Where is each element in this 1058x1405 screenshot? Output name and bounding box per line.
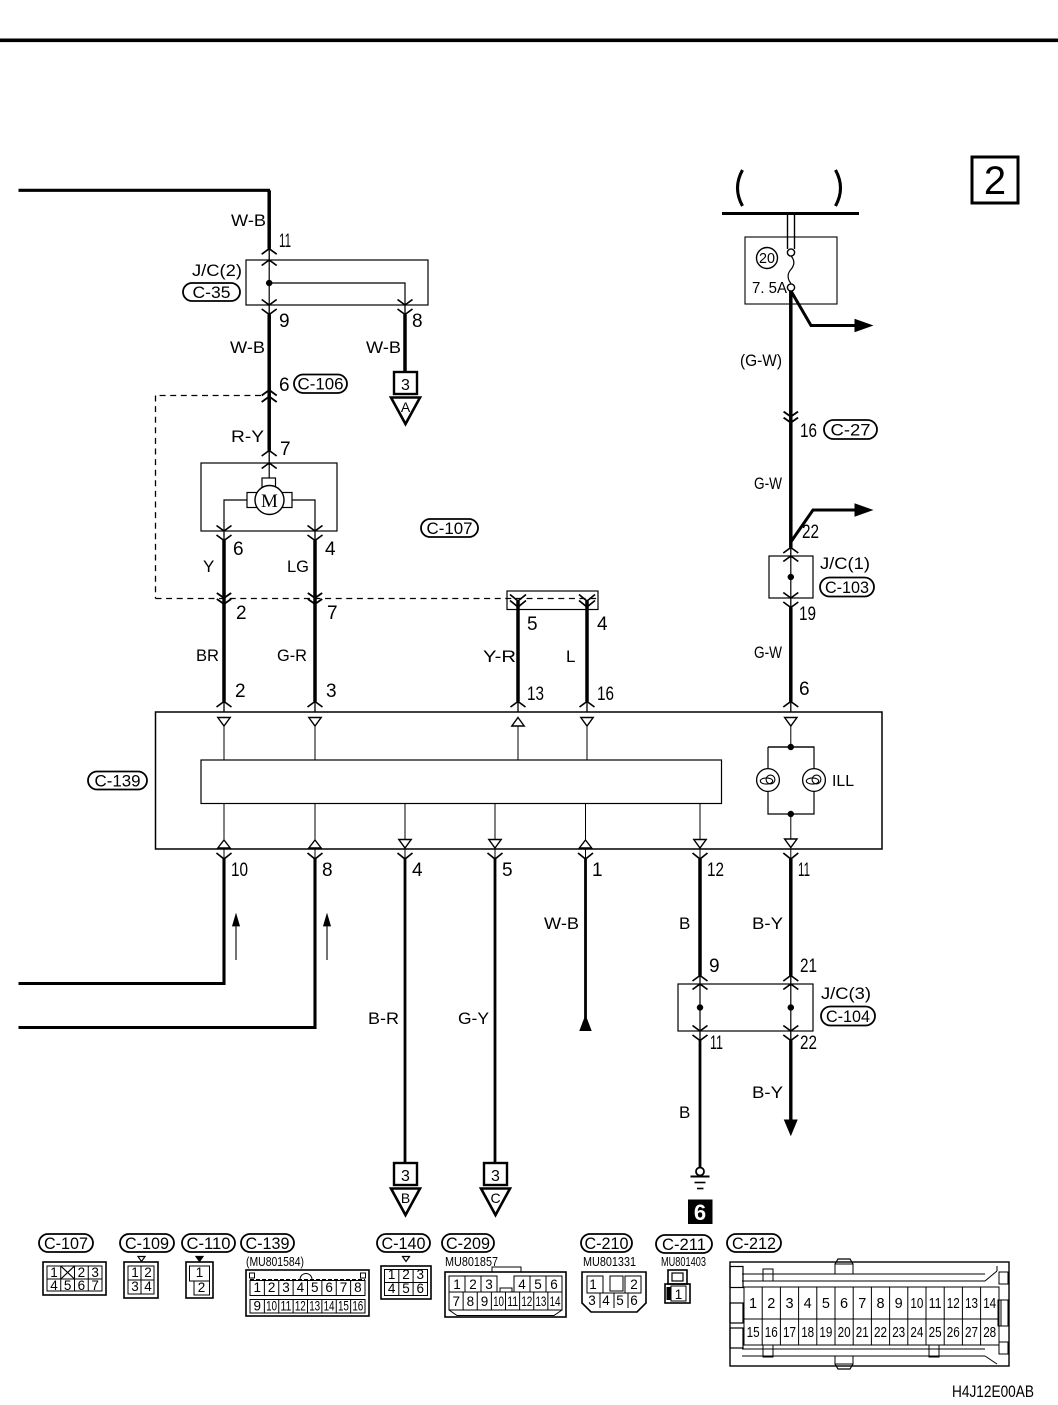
- motor M symbol: [268, 463, 270, 478]
- svg-text:26: 26: [947, 1325, 960, 1341]
- connector view C-107: [43, 1262, 106, 1295]
- svg-text:1: 1: [675, 1287, 683, 1302]
- svg-text:C-212: C-212: [732, 1235, 776, 1253]
- svg-text:1: 1: [131, 1265, 139, 1280]
- svg-text:2: 2: [402, 1267, 410, 1282]
- connector view C-109: [138, 1257, 145, 1262]
- svg-text:W-B: W-B: [230, 338, 265, 357]
- svg-text:2: 2: [235, 681, 246, 702]
- svg-text:13: 13: [535, 1294, 546, 1309]
- svg-text:16: 16: [352, 1299, 363, 1314]
- connector crossing C-27 marks: [784, 412, 798, 417]
- svg-text:3: 3: [401, 377, 410, 394]
- crossing marks C-106 on Y wire pin 2: [217, 593, 231, 598]
- svg-text:16: 16: [597, 684, 614, 705]
- svg-text:8: 8: [354, 1280, 362, 1295]
- pin 6 terminal into C-139: [783, 702, 798, 708]
- connector label C-210 bottom: [581, 1234, 632, 1252]
- pin 13 output triangle: [512, 718, 524, 727]
- wire Y-R from bar pin 5 to C-139 pin 13: [516, 601, 520, 702]
- svg-text:2: 2: [236, 603, 247, 624]
- C-212 left side tabs: [730, 1267, 743, 1288]
- svg-text:C-27: C-27: [831, 421, 871, 439]
- svg-text:B-Y: B-Y: [752, 1083, 783, 1102]
- pin 3 input triangle: [309, 718, 321, 727]
- connector label C-106: [294, 375, 347, 394]
- pin 12 output triangle: [699, 804, 701, 840]
- connector view C-139: [246, 1270, 369, 1316]
- svg-text:1: 1: [388, 1267, 396, 1282]
- wire BR from C-106 pin 2 down to C-139: [222, 604, 226, 702]
- svg-text:7: 7: [280, 439, 291, 460]
- ground symbol: [696, 1168, 704, 1176]
- wire G-W from J/C(1) to C-139 pin 6: [789, 608, 793, 702]
- svg-text:C-209: C-209: [446, 1235, 490, 1253]
- svg-text:20: 20: [838, 1325, 851, 1341]
- wire Y from motor pin 6: [222, 541, 226, 593]
- fuse box C-27 outline: [745, 237, 837, 304]
- svg-text:13: 13: [965, 1296, 978, 1312]
- svg-text:7: 7: [452, 1294, 460, 1309]
- svg-text:LG: LG: [287, 557, 309, 576]
- svg-text:6: 6: [630, 1293, 638, 1308]
- svg-text:11: 11: [710, 1033, 723, 1054]
- svg-text:22: 22: [800, 1033, 817, 1054]
- svg-text:10: 10: [266, 1299, 277, 1314]
- switch inner body rectangle: [201, 760, 722, 804]
- svg-text:W-B: W-B: [231, 211, 266, 230]
- svg-text:J/C(3): J/C(3): [821, 984, 871, 1003]
- connector label C-110 bottom: [182, 1234, 235, 1252]
- pin 10 terminal and label: [217, 853, 232, 859]
- crossing marks C-106 on LG wire pin 7: [308, 593, 322, 598]
- svg-text:C-104: C-104: [826, 1008, 870, 1026]
- svg-text:16: 16: [765, 1325, 778, 1341]
- branch arrow to other circuit above J/C(1): [791, 510, 857, 542]
- junction connector J/C(3) box C-104: [693, 976, 708, 982]
- svg-text:4: 4: [597, 614, 608, 635]
- svg-text:28: 28: [983, 1325, 996, 1341]
- wire R-Y from C-106 to motor: [267, 397, 271, 451]
- svg-text:(MU801584): (MU801584): [246, 1254, 304, 1269]
- svg-text:C-109: C-109: [125, 1235, 169, 1253]
- pin 2 input triangle: [218, 718, 230, 727]
- pin 1 output triangle: [585, 804, 587, 840]
- svg-text:4: 4: [412, 860, 423, 881]
- shield destination B: box 3 with triangle: [394, 1163, 417, 1185]
- svg-text:13: 13: [527, 684, 544, 705]
- svg-text:3: 3: [326, 681, 337, 702]
- svg-text:15: 15: [747, 1325, 760, 1341]
- female terminal pin 5: [510, 595, 526, 602]
- thick W-B feed wire from left edge: [19, 189, 271, 192]
- svg-text:12: 12: [521, 1294, 532, 1309]
- svg-text:C: C: [490, 1190, 500, 1206]
- ILL lamp bulb right: [803, 769, 826, 792]
- svg-text:5: 5: [534, 1277, 542, 1292]
- pin 8 terminal and label: [308, 853, 323, 859]
- svg-text:12: 12: [947, 1296, 960, 1312]
- wire L from bar pin 4 to C-139 pin 16: [585, 601, 589, 702]
- C-212 top latch bump: [835, 1259, 853, 1264]
- svg-text:6: 6: [694, 1200, 706, 1225]
- wire G-Y from pin 5 down to shield C: [494, 859, 497, 1163]
- wire B from pin 12 to J/C(3): [698, 859, 702, 976]
- ground number 6 black box: [688, 1200, 713, 1225]
- svg-text:11: 11: [929, 1296, 942, 1312]
- svg-text:1: 1: [592, 860, 603, 881]
- svg-text:6: 6: [550, 1277, 558, 1292]
- svg-text:M: M: [261, 491, 278, 512]
- pin 1 terminal and label: [578, 853, 593, 859]
- svg-text:20: 20: [759, 251, 775, 267]
- svg-text:3: 3: [417, 1267, 425, 1282]
- motor pin 6 exit: [217, 526, 232, 532]
- svg-text:2: 2: [984, 159, 1006, 203]
- fuse element S-curve with terminals: [787, 249, 794, 256]
- pin 6 input triangle ILL: [785, 718, 797, 727]
- fuse holder double stem: [787, 214, 789, 250]
- power window main switch box C-139: [156, 712, 883, 849]
- svg-text:C-35: C-35: [193, 284, 231, 302]
- ILL lamp parallel circuit: [788, 744, 794, 750]
- svg-text:4: 4: [325, 539, 336, 560]
- pin 10 output triangle: [223, 804, 225, 840]
- C-212 terminal rows: [744, 1287, 999, 1319]
- svg-text:22: 22: [802, 522, 819, 543]
- svg-text:1: 1: [453, 1277, 461, 1292]
- svg-text:7: 7: [91, 1278, 99, 1293]
- svg-text:16: 16: [800, 421, 817, 442]
- svg-text:21: 21: [856, 1325, 869, 1341]
- svg-text:4: 4: [144, 1279, 152, 1294]
- svg-text:11: 11: [798, 860, 810, 881]
- svg-text:J/C(1): J/C(1): [820, 554, 870, 573]
- svg-text:6: 6: [799, 679, 810, 700]
- ILL lamp bulb left: [757, 769, 780, 792]
- svg-text:2: 2: [469, 1277, 477, 1292]
- svg-text:10: 10: [493, 1294, 504, 1309]
- svg-text:6: 6: [840, 1296, 848, 1312]
- svg-text:(G-W): (G-W): [740, 351, 782, 370]
- connector view C-212 shell: [730, 1262, 1009, 1366]
- connector label C-140 bottom: [377, 1234, 430, 1252]
- svg-text:9: 9: [895, 1296, 903, 1312]
- svg-text:C-211: C-211: [662, 1236, 706, 1254]
- wire from pin 10 to left edge: [19, 859, 225, 984]
- svg-text:L: L: [566, 647, 575, 666]
- svg-text:2: 2: [198, 1280, 206, 1295]
- svg-text:6: 6: [325, 1280, 333, 1295]
- connector view C-209: [445, 1272, 566, 1317]
- svg-text:C-107: C-107: [427, 520, 473, 538]
- wire W-B down from J/C(2) pin 9: [267, 315, 271, 388]
- svg-text:24: 24: [910, 1325, 923, 1341]
- C-212 top rail: [742, 1273, 985, 1275]
- bus bar under ignition switch: [722, 212, 859, 215]
- svg-text:6: 6: [233, 539, 244, 560]
- svg-text:2: 2: [144, 1265, 152, 1280]
- connector label C-209 bottom: [442, 1234, 494, 1252]
- connector label C-212 bottom: [727, 1234, 781, 1252]
- svg-text:11: 11: [280, 1299, 291, 1314]
- svg-text:27: 27: [965, 1325, 978, 1341]
- svg-text:4: 4: [297, 1280, 305, 1295]
- connector crossing C-106 marks on W-B/R-Y wire: [262, 390, 277, 396]
- svg-text:7: 7: [340, 1280, 348, 1295]
- solid triangle wire end: [580, 1016, 591, 1031]
- wire G-W from fuse down to C-27 crossing: [789, 291, 793, 414]
- svg-text:BR: BR: [196, 646, 219, 665]
- svg-text:4: 4: [50, 1278, 58, 1293]
- female terminal pin 4: [579, 595, 595, 602]
- power window motor component box C-107: [262, 451, 277, 457]
- svg-text:C-140: C-140: [382, 1235, 426, 1253]
- connector label C-27: [824, 420, 877, 439]
- svg-text:6: 6: [279, 375, 290, 396]
- svg-text:10: 10: [910, 1296, 923, 1312]
- svg-text:5: 5: [311, 1280, 319, 1295]
- page number box 2: [972, 157, 1018, 203]
- svg-text:A: A: [401, 399, 411, 415]
- svg-text:14: 14: [324, 1299, 335, 1314]
- svg-text:9: 9: [481, 1294, 489, 1309]
- svg-text:8: 8: [876, 1296, 884, 1312]
- wire B from J/C(3) to ground: [699, 1041, 702, 1168]
- svg-text:3: 3: [401, 1168, 410, 1185]
- svg-text:9: 9: [253, 1299, 261, 1314]
- svg-text:4: 4: [388, 1281, 396, 1296]
- svg-text:3: 3: [588, 1293, 596, 1308]
- svg-text:4: 4: [518, 1277, 526, 1292]
- pin 8 output triangle: [314, 804, 316, 840]
- connector label C-107 bottom: [39, 1234, 93, 1252]
- wire B-Y from pin 11 to J/C(3): [789, 859, 793, 976]
- connector view C-210: [582, 1272, 646, 1312]
- svg-text:C-110: C-110: [187, 1235, 231, 1253]
- svg-text:1: 1: [589, 1277, 597, 1292]
- svg-text:8: 8: [322, 860, 333, 881]
- svg-text:10: 10: [231, 860, 248, 881]
- flow arrow up near pin 10 wire: [235, 924, 237, 960]
- svg-text:13: 13: [309, 1299, 320, 1314]
- svg-text:6: 6: [78, 1278, 86, 1293]
- pin 12 terminal and label: [693, 853, 708, 859]
- svg-text:W-B: W-B: [366, 338, 401, 357]
- fuse number circled 20: [757, 248, 778, 269]
- connector view C-211: [668, 1270, 687, 1284]
- wire W-B down from J/C(2) pin 8: [403, 315, 407, 372]
- svg-text:7: 7: [858, 1296, 866, 1312]
- svg-text:R-Y: R-Y: [231, 427, 264, 446]
- connector view C-110: [196, 1257, 203, 1262]
- svg-text:25: 25: [929, 1325, 942, 1341]
- connector label C-107: [421, 519, 478, 537]
- svg-text:G-Y: G-Y: [458, 1009, 489, 1028]
- svg-text:12: 12: [295, 1299, 306, 1314]
- svg-text:19: 19: [799, 604, 816, 625]
- svg-text:B-R: B-R: [368, 1009, 399, 1028]
- pin 5 terminal and label: [488, 853, 503, 859]
- svg-text:14: 14: [983, 1296, 996, 1312]
- svg-text:4: 4: [804, 1296, 812, 1312]
- svg-text:1: 1: [196, 1265, 204, 1280]
- svg-text:22: 22: [874, 1325, 887, 1341]
- svg-text:Y: Y: [203, 557, 214, 576]
- svg-text:C-210: C-210: [585, 1235, 629, 1253]
- svg-text:2: 2: [767, 1296, 775, 1312]
- dashed connector boundary C-106: [156, 395, 262, 397]
- svg-text:9: 9: [709, 956, 720, 977]
- pin 5 output triangle: [494, 804, 496, 840]
- connector label C-139: [88, 772, 147, 790]
- svg-text:23: 23: [892, 1325, 905, 1341]
- svg-text:1: 1: [253, 1280, 261, 1295]
- connector view C-140: [403, 1257, 410, 1262]
- wire LG from motor pin 4: [313, 541, 317, 593]
- svg-text:8: 8: [467, 1294, 475, 1309]
- svg-text:19: 19: [819, 1325, 832, 1341]
- svg-text:6: 6: [417, 1281, 425, 1296]
- svg-text:1: 1: [749, 1296, 757, 1312]
- svg-text:2: 2: [630, 1277, 638, 1292]
- svg-text:B: B: [679, 1103, 690, 1122]
- svg-text:C-139: C-139: [95, 772, 141, 790]
- svg-text:5: 5: [502, 860, 513, 881]
- svg-text:G-W: G-W: [754, 643, 782, 662]
- svg-text:11: 11: [507, 1294, 518, 1309]
- top black bar (page rule): [0, 39, 1058, 43]
- svg-text:MU801331: MU801331: [583, 1254, 636, 1269]
- svg-text:11: 11: [279, 231, 291, 252]
- inline connector bar with terminals (switch side): [507, 591, 598, 610]
- motor pin 4 exit: [308, 526, 323, 532]
- svg-text:18: 18: [801, 1325, 814, 1341]
- svg-text:9: 9: [279, 311, 290, 332]
- connector label C-139 bottom: [241, 1234, 294, 1252]
- svg-text:7: 7: [327, 603, 338, 624]
- pin 4 terminal and label: [398, 853, 413, 859]
- motor internal wires to pins: [224, 500, 247, 531]
- svg-text:G-W: G-W: [754, 474, 782, 493]
- svg-text:8: 8: [412, 311, 423, 332]
- svg-text:C-107: C-107: [44, 1235, 88, 1253]
- svg-text:5: 5: [822, 1296, 830, 1312]
- svg-text:B: B: [401, 1190, 410, 1206]
- svg-text:2: 2: [268, 1280, 276, 1295]
- connector label C-109 bottom: [120, 1234, 174, 1252]
- wire W-B from pin 1 ending in solid triangle: [584, 859, 587, 1018]
- junction connector J/C(2) box C-35: [262, 249, 277, 255]
- junction connector J/C(1) box C-103: [783, 548, 798, 554]
- wire G-W from C-27 to J/C(1): [789, 424, 793, 548]
- wire G-R from C-106 pin 7 down to C-139: [313, 604, 317, 702]
- branch arrow from fuse output: [791, 291, 857, 326]
- svg-text:5: 5: [527, 614, 538, 635]
- svg-text:5: 5: [402, 1281, 410, 1296]
- svg-text:MU801857: MU801857: [445, 1254, 498, 1269]
- svg-text:21: 21: [800, 956, 817, 977]
- pin 11 terminal and label: [783, 853, 798, 859]
- wire B-Y from J/C(3) ending in down arrow: [789, 1041, 792, 1123]
- svg-text:14: 14: [550, 1294, 561, 1309]
- svg-text:3: 3: [131, 1279, 139, 1294]
- svg-text:7. 5A: 7. 5A: [752, 280, 787, 297]
- svg-text:MU801403: MU801403: [661, 1254, 706, 1269]
- svg-text:12: 12: [707, 860, 724, 881]
- svg-text:J/C(2): J/C(2): [192, 261, 242, 280]
- shield destination C: box 3 with triangle: [484, 1163, 507, 1185]
- svg-text:3: 3: [485, 1277, 493, 1292]
- C-212 right side details: [999, 1272, 1008, 1284]
- flow arrow up near pin 8 wire: [326, 924, 328, 960]
- ILL exit line and triangle pin 11: [790, 814, 792, 839]
- C-212 bottom latch bump: [835, 1364, 853, 1369]
- svg-text:H4J12E00AB: H4J12E00AB: [952, 1383, 1034, 1401]
- C-212 bottom rail: [742, 1348, 985, 1350]
- svg-text:5: 5: [64, 1278, 72, 1293]
- svg-text:W-B: W-B: [544, 914, 579, 933]
- ignition switch parentheses (label blanked): [738, 170, 743, 206]
- shield destination A: box 3 with triangle: [394, 372, 417, 394]
- svg-text:3: 3: [785, 1296, 793, 1312]
- connector label C-211 bottom: [656, 1235, 712, 1253]
- svg-text:17: 17: [783, 1325, 796, 1341]
- svg-text:3: 3: [282, 1280, 290, 1295]
- svg-text:C-139: C-139: [246, 1235, 290, 1253]
- pin 4 output triangle: [404, 804, 406, 840]
- wire B-R from pin 4 down to shield B: [404, 859, 407, 1163]
- pin 16 input triangle: [581, 718, 593, 727]
- svg-text:G-R: G-R: [277, 646, 307, 665]
- svg-text:5: 5: [616, 1293, 624, 1308]
- svg-text:3: 3: [491, 1168, 500, 1185]
- svg-text:B-Y: B-Y: [752, 914, 783, 933]
- svg-text:C-103: C-103: [825, 579, 869, 597]
- svg-text:B: B: [679, 914, 690, 933]
- svg-text:C-106: C-106: [298, 376, 344, 394]
- svg-text:4: 4: [602, 1293, 610, 1308]
- wire from pin 8 to left edge: [19, 859, 316, 1028]
- svg-text:ILL: ILL: [832, 773, 854, 790]
- svg-text:Y-R: Y-R: [483, 647, 516, 666]
- svg-text:15: 15: [338, 1299, 349, 1314]
